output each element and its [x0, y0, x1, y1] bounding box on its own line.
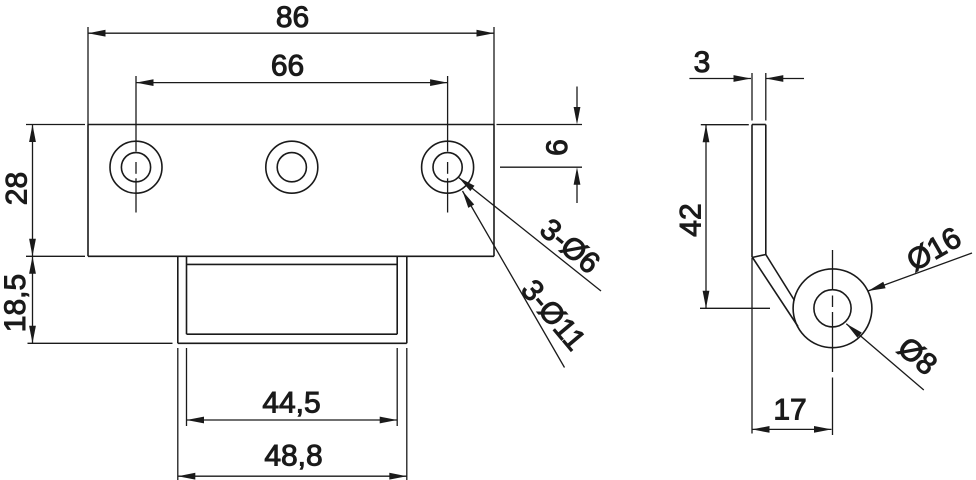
svg-text:48,8: 48,8 — [264, 439, 322, 472]
svg-text:17: 17 — [773, 393, 806, 426]
svg-text:42: 42 — [674, 203, 707, 236]
svg-text:3: 3 — [694, 46, 711, 79]
svg-text:28: 28 — [0, 172, 33, 205]
svg-text:44,5: 44,5 — [262, 386, 320, 419]
svg-text:86: 86 — [276, 1, 309, 34]
svg-text:66: 66 — [271, 49, 304, 82]
svg-text:6: 6 — [541, 139, 574, 156]
svg-text:18,5: 18,5 — [0, 274, 32, 332]
